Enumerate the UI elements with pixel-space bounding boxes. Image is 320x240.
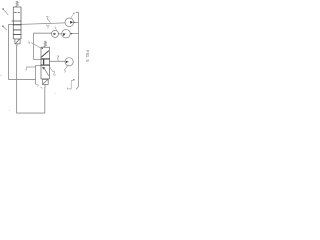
leader line to valve V1 top — [4, 10, 8, 15]
pump P2a (small, lower pump row left) — [52, 30, 59, 37]
wire: riser from lower junction up to valve V2 left port — [36, 65, 41, 84]
pump P1 (upper right) — [65, 18, 74, 27]
arrowhead into bus from P2 stub — [71, 33, 73, 35]
valve V1 body — [13, 7, 21, 39]
pump P1 arrow mark — [70, 21, 73, 24]
spring of valve V1 — [16, 1, 19, 7]
wire: valve V1 right port to pump P1 — [21, 23, 65, 25]
solenoid S2 tail — [44, 84, 46, 87]
wire: branch stub left at y67 with hook — [26, 67, 36, 70]
wire: connector between pump P2a and P2 — [59, 33, 62, 35]
leader dot 32 left — [2, 25, 4, 27]
leader line to valve V2 top-left — [31, 43, 41, 48]
solenoid S1 of valve V1 — [15, 39, 20, 44]
leader tick above pump P3 line — [57, 56, 59, 59]
spring of valve V2 — [44, 41, 47, 47]
wire: right vertical bus — [76, 12, 79, 89]
wire: valve V2 right port to pump P3 — [49, 60, 65, 62]
svg-text:FIG. 5: FIG. 5 — [85, 50, 90, 62]
leader squiggle 42 below-right of valve V2 — [53, 71, 56, 75]
valve V2 divider band lower — [41, 64, 49, 66]
speck noise — [0, 74, 1, 76]
pump P2 arrow mark — [63, 33, 66, 36]
valve V2 top section arrow — [42, 51, 49, 57]
leader dot 30 upper-left — [2, 8, 4, 10]
solenoid S2 of valve V2 — [42, 79, 48, 84]
leader tick to pump P1 top — [71, 14, 74, 18]
valve V2 bottom section diagonal — [44, 68, 48, 75]
leader numeral squiggle above pump P2a line — [48, 25, 50, 28]
leader dot and J-hook lower right — [73, 79, 75, 81]
valve V2 bottom section arrowhead — [42, 67, 45, 70]
leader from pump P3 lower-left with squiggle — [65, 65, 68, 69]
leader tick to pump P2a top — [55, 27, 56, 30]
pump P2 (lower pump row right) — [62, 29, 71, 38]
valve V2 middle section bar — [43, 60, 45, 64]
pump P2a arrow mark — [53, 33, 56, 35]
wire: pump P2 outlet stub to bus — [70, 33, 78, 35]
leader numeral squiggle above supply line — [46, 16, 48, 18]
leader diagonal from valve V2 right edge — [50, 67, 53, 71]
wire: squiggle at bottom of riser — [36, 84, 39, 87]
valve V1 internal port dashes — [15, 12, 20, 14]
leader tick at solenoid S2 tail — [40, 87, 42, 88]
leader squiggle 40 left of valve V2 — [28, 42, 30, 44]
solenoid S1 tail — [16, 44, 18, 46]
wire: valve V1 left port down left side to lower junction — [9, 25, 36, 80]
valve V2 divider band upper — [41, 58, 49, 60]
pump P3 arrow mark — [66, 61, 69, 63]
pump P3 (middle right) — [65, 58, 73, 66]
wire: pump P1 outlet stub to bus — [74, 21, 79, 23]
valve V2 top-left port dot — [42, 48, 43, 49]
wire: V1 bottom tail down, across bottom, up to V2 solenoid tail — [17, 46, 45, 114]
valve V2 body — [41, 47, 49, 79]
leader line to left wire — [4, 27, 7, 30]
valve V1 dark band detail — [13, 24, 21, 26]
arrowhead into bus from P1 stub — [74, 22, 76, 23]
wire: from pump P2 line corner down to valve V2 upper-left port — [34, 33, 52, 59]
